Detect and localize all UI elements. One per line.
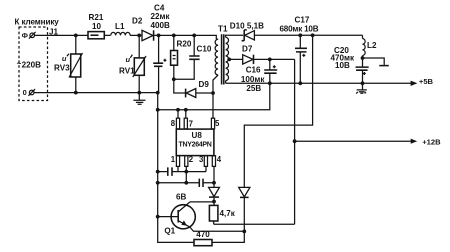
- svg-text:8: 8: [171, 119, 176, 128]
- svg-text:4: 4: [217, 155, 222, 164]
- svg-text:J1: J1: [49, 28, 59, 37]
- svg-text:3: 3: [199, 155, 204, 164]
- svg-text:u: u: [62, 54, 67, 63]
- svg-text:RV3: RV3: [54, 64, 70, 73]
- svg-text:T1: T1: [218, 25, 228, 34]
- svg-text:u: u: [126, 55, 131, 64]
- svg-text:+12В: +12В: [422, 138, 441, 147]
- svg-text:0: 0: [23, 88, 27, 97]
- svg-text:6В: 6В: [176, 193, 187, 202]
- svg-text:25В: 25В: [246, 84, 261, 93]
- svg-text:4,7к: 4,7к: [220, 209, 236, 218]
- svg-text:L2: L2: [367, 41, 377, 50]
- svg-text:D2: D2: [132, 17, 143, 26]
- svg-text:2: 2: [189, 155, 194, 164]
- svg-text:D9: D9: [199, 80, 210, 89]
- svg-text:C17: C17: [295, 16, 310, 25]
- svg-text:10: 10: [92, 22, 102, 31]
- svg-text:400В: 400В: [151, 21, 171, 30]
- svg-text:680мк 10В: 680мк 10В: [280, 24, 319, 33]
- svg-text:100мк: 100мк: [241, 75, 265, 84]
- svg-text:1: 1: [171, 155, 176, 164]
- svg-text:R20: R20: [177, 40, 192, 49]
- svg-text:TNY264PN: TNY264PN: [179, 142, 212, 149]
- svg-text:R21: R21: [89, 13, 104, 22]
- svg-text:5: 5: [215, 119, 220, 128]
- svg-text:C10: C10: [197, 45, 212, 54]
- svg-text:+5В: +5В: [419, 77, 434, 86]
- svg-text:К клемнику: К клемнику: [15, 17, 60, 26]
- svg-text:U8: U8: [192, 131, 203, 140]
- svg-text:C16: C16: [246, 65, 261, 74]
- svg-text:L1: L1: [115, 22, 125, 31]
- svg-text:10В: 10В: [335, 61, 350, 70]
- svg-text:Q1: Q1: [164, 227, 175, 236]
- svg-text:RV1: RV1: [119, 67, 135, 76]
- svg-text:470: 470: [196, 230, 210, 239]
- svg-text:Ф: Ф: [22, 31, 29, 40]
- svg-text:D7: D7: [242, 45, 253, 54]
- svg-text:22мк: 22мк: [151, 12, 171, 21]
- svg-text:220В: 220В: [22, 60, 42, 69]
- svg-text:7: 7: [189, 119, 193, 128]
- svg-text:D10 5,1В: D10 5,1В: [230, 21, 264, 30]
